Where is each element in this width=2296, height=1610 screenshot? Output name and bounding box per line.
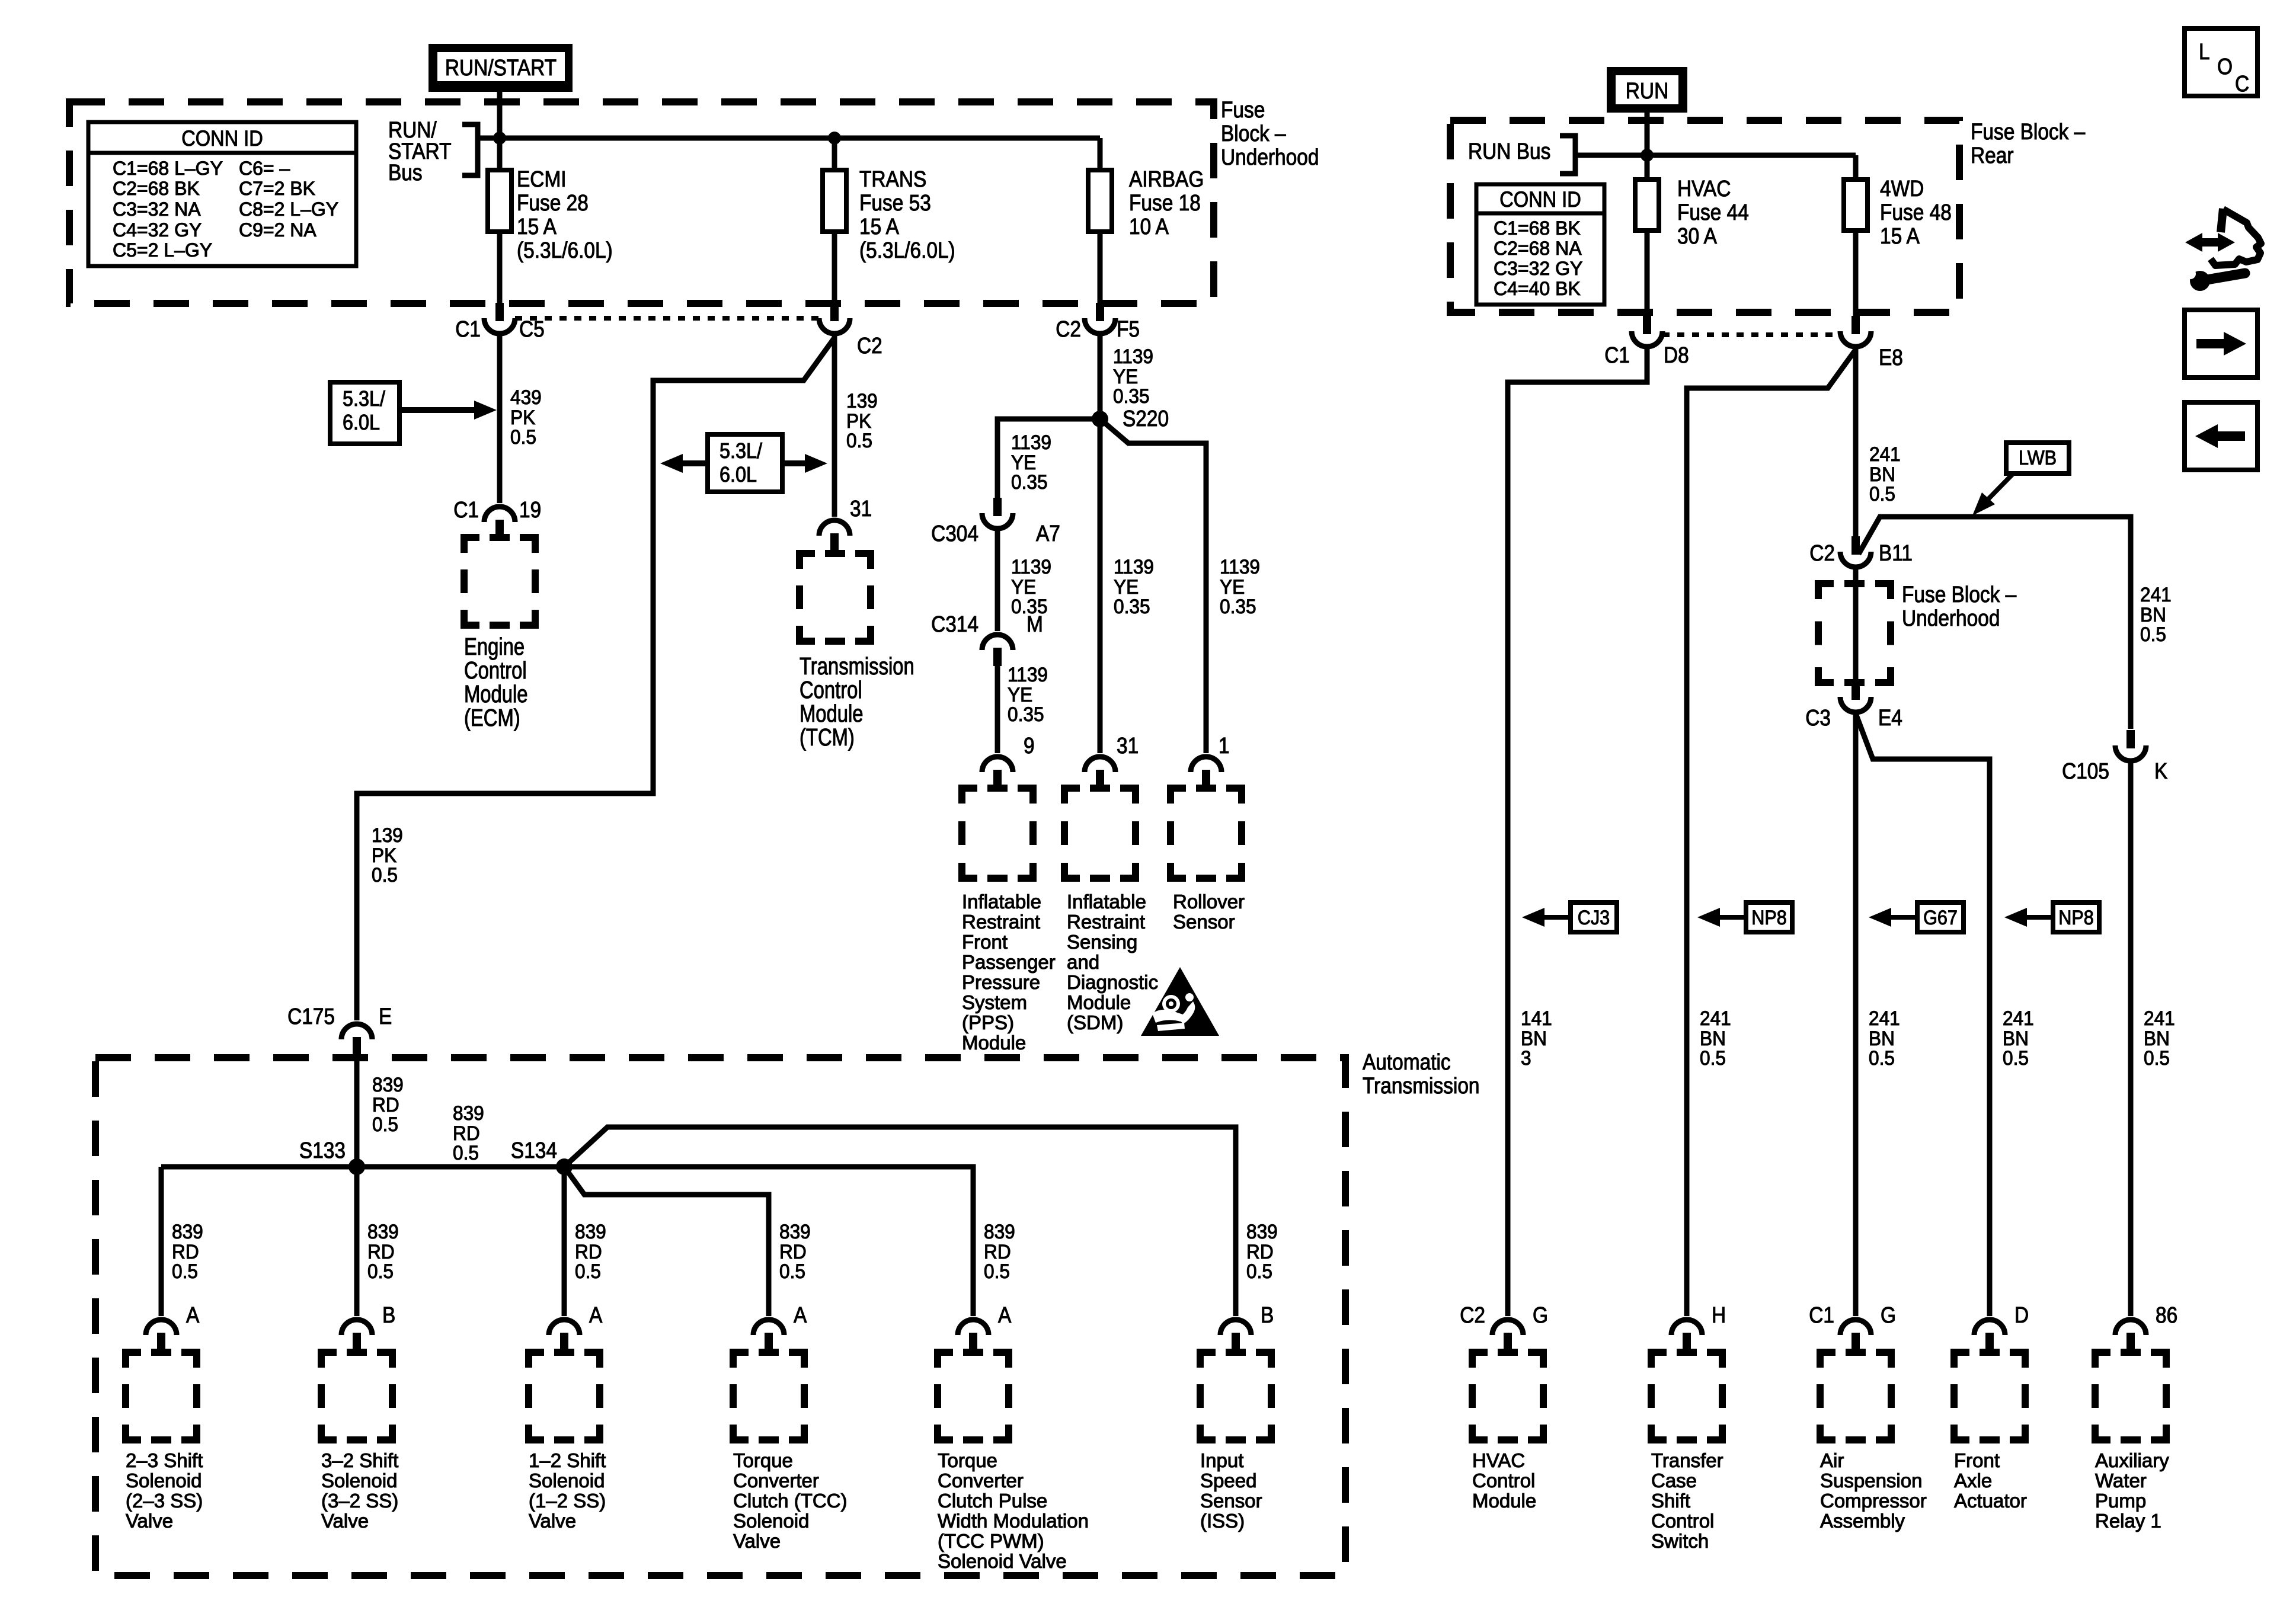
svg-text:C3=32 GY: C3=32 GY [1494,258,1582,279]
svg-text:C1=68 L–GY: C1=68 L–GY [113,158,223,179]
svg-text:1139: 1139 [1113,345,1153,367]
svg-text:C2: C2 [1809,540,1835,565]
svg-text:Fuse Block –: Fuse Block – [1902,582,2016,607]
svg-text:Input: Input [1200,1449,1243,1471]
svg-text:G: G [1881,1302,1896,1327]
svg-text:Valve: Valve [733,1530,781,1552]
svg-text:Fuse 48: Fuse 48 [1880,200,1952,225]
svg-text:G: G [1533,1302,1548,1327]
svg-text:C1: C1 [1604,343,1630,367]
tag LWB [2006,443,2069,473]
svg-text:15 A: 15 A [859,214,899,239]
svg-text:Underhood: Underhood [1902,606,2000,630]
svg-text:241: 241 [2144,1007,2175,1029]
module box Engine Control Module [464,537,535,625]
wire E8 to transfer case switch [1687,350,1856,1316]
svg-text:3: 3 [1521,1046,1531,1069]
svg-text:0.5: 0.5 [1700,1046,1726,1069]
svg-text:E4: E4 [1878,705,1902,730]
svg-text:1139: 1139 [1220,555,1260,578]
fuse block underhood pass-through dashed box [1818,584,1891,683]
svg-text:0.35: 0.35 [1113,385,1150,407]
svg-text:CONN ID: CONN ID [1499,187,1581,212]
svg-text:5.3L/: 5.3L/ [720,439,762,463]
module box Rollover Sensor [1171,788,1242,878]
svg-text:Restraint: Restraint [1067,911,1145,933]
wire C314 to PPS pin 9 [995,665,1000,753]
svg-text:1139: 1139 [1011,555,1051,578]
svg-text:0.5: 0.5 [1246,1260,1272,1282]
svg-text:Restraint: Restraint [962,911,1040,933]
svg-text:C1=68 BK: C1=68 BK [1494,217,1581,239]
svg-text:D: D [2014,1302,2029,1327]
module box Transfer Case Shift Control Switch [1651,1352,1722,1440]
svg-text:1139: 1139 [1114,555,1154,578]
svg-text:C1: C1 [455,316,481,341]
svg-text:(ECM): (ECM) [464,703,520,731]
svg-text:NP8: NP8 [1751,907,1786,929]
svg-text:Valve: Valve [126,1510,173,1532]
svg-text:ECMI: ECMI [517,167,567,191]
svg-text:1: 1 [1219,733,1230,758]
svg-text:(3–2 SS): (3–2 SS) [321,1490,398,1512]
tag NP8 (front axle) [2004,908,2027,927]
svg-text:3–2 Shift: 3–2 Shift [321,1449,398,1471]
svg-text:TRANS: TRANS [859,167,926,191]
connector C1/C5 [495,303,504,321]
svg-text:Solenoid: Solenoid [733,1510,809,1532]
svg-text:0.5: 0.5 [779,1260,805,1282]
wire bus to AIRBAG fuse [1098,138,1103,172]
junction dot at ECMI feed [493,132,506,145]
svg-text:A7: A7 [1036,521,1060,546]
svg-text:C2=68 BK: C2=68 BK [113,178,200,199]
wire RUN/START bus [478,136,1100,141]
svg-text:Inflatable: Inflatable [962,891,1041,913]
svg-text:Valve: Valve [321,1510,369,1532]
svg-text:S133: S133 [299,1138,346,1163]
svg-text:4WD: 4WD [1880,176,1924,201]
wire through fuse block underhood [1853,568,1859,681]
svg-text:and: and [1067,951,1099,973]
connector family dotted line C5 to C2 [515,316,819,321]
svg-text:C1: C1 [453,497,479,522]
wire S13x to 3–2 Shift solenoid/sensor [354,1167,360,1316]
svg-text:241: 241 [1700,1007,1731,1029]
wire RUN feed to bus [1645,113,1650,155]
svg-text:Fuse Block –: Fuse Block – [1971,119,2085,144]
svg-text:E8: E8 [1879,345,1903,370]
svg-text:LWB: LWB [2019,447,2057,469]
svg-text:C4=32 GY: C4=32 GY [113,219,202,241]
vehicle harness icon wrench [2190,271,2210,291]
svg-text:C6= –: C6= – [239,158,290,179]
svg-text:Switch: Switch [1651,1530,1709,1552]
svg-text:(SDM): (SDM) [1067,1012,1123,1033]
svg-text:0.5: 0.5 [453,1141,479,1164]
wire C175 to S133 [354,1055,360,1167]
svg-text:B: B [382,1302,395,1327]
svg-text:AIRBAG: AIRBAG [1129,167,1204,191]
connector E8 [1851,316,1860,334]
svg-text:Clutch (TCC): Clutch (TCC) [733,1490,848,1512]
fuse ECMI Fuse 28 [488,170,511,232]
vehicle harness icon double arrow [2195,238,2225,247]
power feed label RUN/START [428,44,573,92]
svg-text:0.35: 0.35 [1114,595,1150,617]
svg-text:C2: C2 [1056,316,1081,341]
svg-text:439: 439 [510,386,542,408]
svg-text:(5.3L/6.0L): (5.3L/6.0L) [859,238,955,263]
connector C1/D8 [1643,316,1651,334]
svg-text:Converter: Converter [733,1470,819,1491]
svg-text:241: 241 [1869,443,1901,465]
svg-text:(TCM): (TCM) [800,723,855,750]
svg-text:(ISS): (ISS) [1200,1510,1245,1532]
svg-text:CJ3: CJ3 [1578,907,1610,929]
wire 439 PK to ECM [497,335,503,503]
svg-text:Axle: Axle [1954,1470,1992,1491]
svg-text:0.5: 0.5 [510,425,536,448]
splice S220 [1092,411,1108,427]
wire TRANS fuse to connector C2 [832,232,837,303]
svg-text:241: 241 [2140,583,2172,606]
wire bus to 4WD fuse [1853,155,1859,182]
vehicle harness icon body outline [2221,209,2223,232]
svg-text:Sensor: Sensor [1200,1490,1262,1512]
svg-text:Fuse 18: Fuse 18 [1129,190,1201,215]
svg-text:0.5: 0.5 [2144,1046,2170,1069]
svg-text:Bus: Bus [388,160,423,185]
wire C105 to aux water pump relay [2128,762,2134,1316]
SDM airbag warning triangle [1141,967,1219,1036]
tag NP8 (transfer case) [1697,908,1720,927]
svg-text:Inflatable: Inflatable [1067,891,1146,913]
wire S220 to Rollover Sensor pin 1 [1100,419,1206,753]
wire S13x to 2–3 Shift solenoid/sensor [159,1167,164,1316]
svg-text:0.5: 0.5 [2003,1046,2029,1069]
svg-text:G67: G67 [1923,907,1958,929]
svg-text:A: A [794,1302,807,1327]
svg-text:NP8: NP8 [2058,907,2093,929]
wire S13x to 1–2 Shift solenoid/sensor [562,1167,567,1316]
module box HVAC Control Module [1472,1352,1543,1440]
svg-text:Module: Module [962,1032,1026,1054]
fuse 4WD Fuse 48 [1844,180,1868,231]
svg-text:31: 31 [1117,733,1139,758]
svg-text:Actuator: Actuator [1954,1490,2027,1512]
tag CJ3 [1522,908,1544,927]
wire solenoid bus S133-S134 [161,1164,564,1170]
module box Torque [938,1352,1009,1440]
svg-text:System: System [962,991,1027,1013]
svg-text:A: A [998,1302,1011,1327]
svg-text:839: 839 [1246,1220,1278,1243]
wire AIRBAG fuse to connector C2/F5 [1098,232,1103,303]
svg-text:0.5: 0.5 [372,863,398,886]
svg-text:Fuse 44: Fuse 44 [1677,200,1749,225]
svg-text:C175: C175 [287,1004,335,1029]
svg-text:Sensing: Sensing [1067,931,1137,953]
wire E4 to air suspension compressor [1853,713,1859,1316]
fuse block underhood dashed box [69,102,1214,303]
svg-text:O: O [2217,54,2233,79]
svg-text:E: E [379,1004,392,1029]
svg-text:0.5: 0.5 [1869,1046,1895,1069]
module box Air Suspension Compressor Assembly [1820,1352,1891,1440]
svg-text:139: 139 [846,389,878,412]
svg-text:Module: Module [1472,1490,1536,1512]
tag 5.3L/6.0L dual callout [708,434,782,492]
svg-text:Solenoid: Solenoid [321,1470,397,1491]
power feed label RUN [1607,67,1687,113]
svg-text:Solenoid Valve: Solenoid Valve [938,1550,1067,1572]
junction dot at TRANS feed [828,132,841,145]
wire LWB circuit B11 to C105 [1859,517,2131,729]
svg-text:141: 141 [1521,1007,1552,1029]
svg-text:Solenoid: Solenoid [126,1470,202,1491]
svg-text:C304: C304 [931,521,978,546]
arrow 5.3L callout to wire [399,407,475,413]
svg-text:Clutch Pulse: Clutch Pulse [938,1490,1047,1512]
wire E8 down to B11 [1853,348,1859,536]
svg-text:Case: Case [1651,1470,1697,1491]
svg-text:C9=2 NA: C9=2 NA [239,219,316,241]
svg-text:Rollover: Rollover [1173,891,1245,913]
wire C304 to C314 [995,530,1000,631]
svg-text:Front: Front [962,931,1008,953]
svg-text:A: A [589,1302,602,1327]
wire 4WD fuse to connector E8 [1853,231,1859,316]
arrow dual callout right [782,460,805,466]
svg-text:C2: C2 [857,333,882,358]
svg-text:Speed: Speed [1200,1470,1256,1491]
svg-text:5.3L/: 5.3L/ [343,387,385,411]
wire branch 139 PK from C2 to C175 [357,338,834,1020]
svg-text:1139: 1139 [1008,663,1048,686]
svg-text:Shift: Shift [1651,1490,1690,1512]
svg-text:RUN: RUN [1626,78,1668,103]
svg-text:1–2 Shift: 1–2 Shift [529,1449,606,1471]
svg-text:Assembly: Assembly [1820,1510,1905,1532]
svg-text:10 A: 10 A [1129,214,1169,239]
svg-text:839: 839 [453,1102,484,1124]
svg-text:Fuse 53: Fuse 53 [859,190,931,215]
svg-text:B11: B11 [1879,540,1913,565]
svg-text:M: M [1027,612,1043,636]
svg-text:15 A: 15 A [1880,223,1920,248]
svg-text:Torque: Torque [938,1449,997,1471]
svg-text:0.5: 0.5 [172,1260,198,1282]
wire RUN bus [1575,153,1856,158]
fuse HVAC Fuse 44 [1635,180,1659,231]
svg-text:2–3 Shift: 2–3 Shift [126,1449,203,1471]
module box 3–2 Shift [321,1352,392,1440]
svg-text:0.35: 0.35 [1008,703,1044,725]
svg-text:Solenoid: Solenoid [529,1470,605,1491]
svg-text:0.5: 0.5 [2140,623,2166,645]
svg-text:F5: F5 [1117,316,1140,341]
module box PPS Module [962,788,1033,878]
svg-text:C105: C105 [2062,758,2109,783]
svg-text:C1: C1 [1809,1302,1834,1327]
svg-text:Diagnostic: Diagnostic [1067,971,1158,993]
svg-text:Pressure: Pressure [962,971,1040,993]
svg-text:839: 839 [575,1220,606,1243]
svg-text:Control: Control [1651,1510,1714,1532]
connector C304/A7 [993,498,1002,516]
svg-text:C7=2 BK: C7=2 BK [239,178,315,199]
module box SDM [1064,788,1136,878]
wire ECMI fuse to connector C1/C5 [497,232,503,303]
navigation arrow box right [2185,310,2257,377]
svg-text:K: K [2154,758,2167,783]
svg-text:6.0L: 6.0L [720,463,757,486]
svg-text:Underhood: Underhood [1221,145,1319,169]
svg-text:0.5: 0.5 [372,1113,398,1135]
connector table CONN ID (rear) [1476,184,1604,305]
svg-text:0.5: 0.5 [984,1260,1010,1282]
svg-text:Module: Module [1067,991,1131,1013]
svg-text:839: 839 [172,1220,203,1243]
module box Torque [733,1352,804,1440]
svg-text:C5=2 L–GY: C5=2 L–GY [113,239,212,261]
svg-text:839: 839 [367,1220,399,1243]
svg-text:Automatic: Automatic [1363,1049,1451,1074]
svg-text:D8: D8 [1664,343,1689,367]
svg-text:86: 86 [2156,1302,2177,1327]
svg-text:HVAC: HVAC [1472,1449,1525,1471]
arrow LWB to wire [1987,474,2013,501]
wire RUN/START feed to bus [497,92,503,138]
svg-text:31: 31 [850,496,872,521]
svg-text:S220: S220 [1123,406,1169,431]
svg-text:C3: C3 [1805,705,1831,730]
svg-text:C: C [2235,71,2249,96]
wire S13x to Torque solenoid/sensor [564,1167,973,1316]
module box Input [1200,1352,1271,1440]
svg-text:Relay 1: Relay 1 [2095,1510,2161,1532]
svg-text:RUN/START: RUN/START [445,55,557,80]
svg-text:C2: C2 [1460,1302,1485,1327]
fuse block rear dashed box [1450,120,1959,312]
svg-text:(TCC PWM): (TCC PWM) [938,1530,1044,1552]
svg-text:Rear: Rear [1971,143,2014,168]
svg-text:Width Modulation: Width Modulation [938,1510,1089,1532]
svg-text:Water: Water [2095,1470,2147,1491]
bus bracket (left) [462,124,478,175]
svg-text:139: 139 [372,824,403,846]
svg-text:C4=40 BK: C4=40 BK [1494,278,1581,299]
wire 139 PK to TCM [832,335,837,517]
tag 5.3L/6.0L engine callout [330,382,399,444]
svg-text:0.35: 0.35 [1220,595,1256,617]
automatic transmission dashed box [95,1058,1345,1576]
svg-text:Torque: Torque [733,1449,793,1471]
svg-text:C2=68 NA: C2=68 NA [1494,238,1582,259]
module box Auxiliary Water Pump Relay 1 [2095,1352,2166,1440]
svg-text:Fuse: Fuse [1221,97,1265,122]
wire D8 to HVAC control module [1508,348,1647,1316]
svg-text:241: 241 [1869,1007,1900,1029]
svg-text:Transmission: Transmission [1363,1073,1480,1098]
wire 1139 YE AIRBAG fuse to S220 [1098,335,1103,419]
arrow dual callout left [682,460,708,466]
wire bus to ECMI fuse [497,138,503,172]
module box Front Axle Actuator [1954,1352,2025,1440]
splice S134 [556,1158,573,1175]
svg-text:0.35: 0.35 [1011,470,1048,493]
tag G67 [1869,908,1891,927]
svg-text:RUN Bus: RUN Bus [1468,139,1550,164]
svg-text:Converter: Converter [938,1470,1024,1491]
svg-text:0.5: 0.5 [367,1260,394,1282]
bus bracket (right) [1560,136,1575,174]
svg-text:(PPS): (PPS) [962,1012,1014,1033]
svg-text:Valve: Valve [529,1510,576,1532]
svg-text:241: 241 [2003,1007,2034,1029]
connector C105/K [2126,730,2135,748]
svg-text:0.5: 0.5 [575,1260,601,1282]
svg-text:(1–2 SS): (1–2 SS) [529,1490,606,1512]
svg-text:Passenger: Passenger [962,951,1056,973]
svg-text:C8=2 L–GY: C8=2 L–GY [239,199,338,220]
svg-text:A: A [186,1302,199,1327]
svg-text:Block –: Block – [1221,121,1286,146]
svg-text:6.0L: 6.0L [343,411,380,434]
fuse AIRBAG Fuse 18 [1088,170,1112,232]
svg-text:L: L [2199,39,2210,64]
svg-text:Transfer: Transfer [1651,1449,1723,1471]
svg-text:Front: Front [1954,1449,2000,1471]
svg-text:19: 19 [519,497,541,522]
module box Transmission Control Module [800,553,871,641]
splice S133 [348,1158,365,1175]
svg-text:9: 9 [1024,733,1035,758]
svg-text:15 A: 15 A [517,214,557,239]
connector C2 (TCM feed) [830,303,839,321]
navigation arrow box left [2185,402,2257,470]
svg-text:B: B [1261,1302,1274,1327]
wire S13x to Torque solenoid/sensor [564,1167,769,1316]
svg-text:30 A: 30 A [1677,223,1717,248]
svg-text:Air: Air [1820,1449,1844,1471]
svg-text:C314: C314 [931,612,978,636]
svg-text:Fuse 28: Fuse 28 [517,190,589,215]
svg-text:Auxiliary: Auxiliary [2095,1449,2169,1471]
svg-text:0.5: 0.5 [846,429,872,452]
svg-text:H: H [1712,1302,1726,1327]
svg-text:(5.3L/6.0L): (5.3L/6.0L) [517,238,613,263]
wire HVAC fuse to connector C1/D8 [1645,231,1650,316]
svg-text:839: 839 [372,1073,404,1096]
connector C3/E4 [1851,681,1860,700]
junction dot at HVAC feed [1641,149,1654,162]
wire bus to TRANS fuse [832,138,837,172]
connector table CONN ID (underhood) [88,122,356,266]
connector C2/F5 [1096,303,1104,321]
connector family dotted line D8 to E8 [1662,332,1839,337]
svg-text:HVAC: HVAC [1677,176,1731,201]
LOC reference box [2185,28,2257,96]
svg-text:Compressor: Compressor [1820,1490,1927,1512]
svg-text:839: 839 [984,1220,1015,1243]
wire S13x to Input solenoid/sensor [564,1127,1236,1316]
svg-text:(2–3 SS): (2–3 SS) [126,1490,203,1512]
svg-text:CONN ID: CONN ID [181,126,263,151]
wire E4 branch to front axle actuator [1856,713,1990,1316]
svg-text:Pump: Pump [2095,1490,2146,1512]
